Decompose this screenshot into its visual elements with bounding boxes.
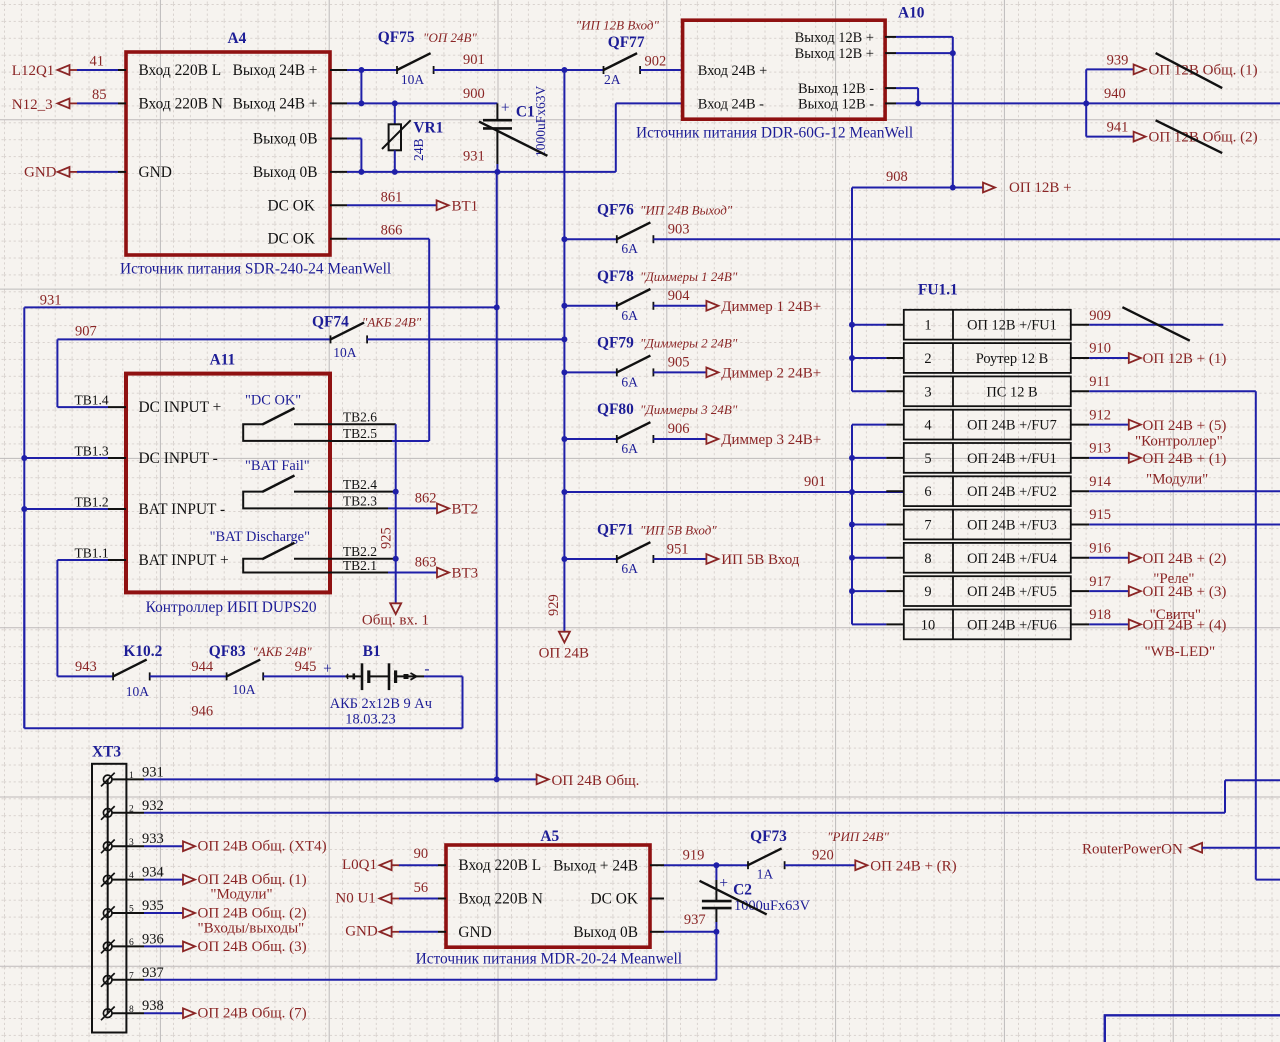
svg-text:6А: 6А [621,308,638,323]
contactor K10.2 [57,643,162,699]
svg-text:10А: 10А [333,345,357,360]
wire jumper out1-out2 [360,70,362,103]
svg-text:2: 2 [924,351,931,367]
A10 pin names [698,30,874,113]
wire 901 QF75 to QF77 [434,69,604,71]
svg-text:951: 951 [667,541,689,557]
wire FU row3 left [852,390,904,392]
FU1.1 row texts [921,318,1057,634]
node dot C1 bottom [494,169,500,175]
node arrow BT1 [437,199,479,215]
wire A5 0V out [650,931,716,933]
svg-text:901: 901 [804,474,826,490]
wire 951 [653,541,706,559]
svg-text:910: 910 [1089,341,1111,357]
node dot 901 [849,489,855,495]
wire 916 [1071,541,1129,558]
svg-text:1: 1 [924,318,931,334]
svg-text:"Диммеры 2 24В": "Диммеры 2 24В" [640,336,738,351]
svg-text:ОП 24В + (5): ОП 24В + (5) [1143,418,1227,434]
wire 901 long to FU bus [564,474,903,492]
svg-text:"АКБ 24В": "АКБ 24В" [252,644,312,659]
svg-text:Вход 24В +: Вход 24В + [698,63,767,79]
wire GND to A4 [77,171,118,173]
svg-text:ОП 24В + (2): ОП 24В + (2) [1143,551,1227,567]
svg-text:862: 862 [415,491,437,507]
wire 908 down to FU bus rows 1-3 [851,188,853,392]
XT3 pin numbers [129,771,134,1015]
svg-text:943: 943 [75,659,97,675]
svg-text:ОП 12В +/FU1: ОП 12В +/FU1 [967,318,1057,334]
node dot 901 bus left [561,489,567,495]
svg-text:+: + [501,100,510,117]
svg-text:904: 904 [668,288,691,304]
vertical common net to Общ. вх. 1 [395,424,397,603]
svg-text:ТВ1.1: ТВ1.1 [75,545,109,560]
wire 936 XT3 pin6 [112,945,183,947]
svg-text:L0Q1: L0Q1 [342,857,377,873]
node arrow ОП 12В Общ. (2) [1134,130,1258,146]
wire 919 A5 +24V out [650,848,748,866]
node dot QF80 bus [561,436,567,442]
svg-text:Выход 0В: Выход 0В [573,924,638,941]
node arrow ОП 24В + (5) [1129,418,1227,450]
svg-text:ПС 12 В: ПС 12 В [986,384,1037,400]
wire FU row9 left [852,590,904,592]
node arrow BT2 [437,502,478,518]
node dot 908 [950,185,956,191]
vertical left 931 to battery minus [23,307,25,728]
svg-text:"WB-LED": "WB-LED" [1145,644,1216,660]
node GND left [24,165,77,181]
node N12_3 [12,87,107,113]
svg-text:863: 863 [415,555,437,571]
wire 909 [1071,308,1224,325]
node dot [849,322,855,328]
svg-text:BT2: BT2 [452,502,479,518]
wire 941 branch [1086,120,1133,137]
svg-text:Вход 220В N: Вход 220В N [458,891,542,908]
varistor VR1 [382,103,443,171]
svg-text:"Контроллер": "Контроллер" [1135,434,1223,450]
svg-text:L12Q1: L12Q1 [12,63,55,79]
wire 931 A4 0V row4 to A10 [330,103,683,171]
svg-text:Выход 12В -: Выход 12В - [798,96,874,112]
svg-text:ОП 24В +/FU1: ОП 24В +/FU1 [967,451,1057,467]
svg-text:85: 85 [92,87,107,103]
svg-text:VR1: VR1 [413,120,443,137]
svg-text:"Модули": "Модули" [210,886,272,902]
wire A5 DC OK stub [650,898,664,900]
svg-text:"BAT Discharge": "BAT Discharge" [210,529,310,545]
svg-text:ОП 24В +/FU3: ОП 24В +/FU3 [967,518,1057,534]
svg-text:905: 905 [668,355,690,371]
node dot TB2.4 [393,489,399,495]
node arrow ОП 24В + (R) [855,859,956,875]
svg-text:10А: 10А [232,682,256,697]
node arrow ОП 24В Общ. [537,773,640,789]
svg-text:929: 929 [546,594,562,616]
wire 932 XT3 pin2 to right edge [112,780,1280,813]
svg-text:10А: 10А [401,72,425,87]
svg-text:-: - [424,661,429,678]
svg-text:916: 916 [1089,541,1111,557]
breaker QF83 [209,643,312,697]
svg-text:"Диммеры 1 24В": "Диммеры 1 24В" [640,269,738,284]
node dot C2 bottom [713,929,719,935]
svg-text:"DC OK": "DC OK" [245,393,301,409]
node RouterPowerON [1082,842,1280,858]
svg-text:900: 900 [463,86,485,102]
svg-text:908: 908 [886,169,908,185]
wire A10 12V- pins to 940 [885,88,918,103]
wire 939 branch [1086,53,1133,137]
wire FU row4 left [852,424,904,426]
XT3 net numbers [142,764,165,1014]
svg-text:QF74: QF74 [312,313,349,330]
breaker QF79 [564,335,737,390]
svg-text:DC INPUT -: DC INPUT - [139,450,218,467]
svg-text:GND: GND [139,164,172,181]
node arrow ОП 24В + (2) [1129,551,1227,587]
wire 933 XT3 pin3 [112,845,183,847]
svg-text:ОП 24В +/FU2: ОП 24В +/FU2 [967,484,1057,500]
svg-text:906: 906 [668,421,690,437]
svg-text:QF71: QF71 [597,521,634,538]
terminal block XT3 [92,744,126,1033]
XT3 pin 8 terminal [101,1007,115,1021]
node arrow ОП 24В + (4) [1129,618,1227,661]
XT3 pin 6 terminal [101,940,115,954]
wire TB1.3 to 931 [24,457,126,459]
wire 940 to right edge [896,86,1280,103]
wire 913 [1071,441,1129,458]
wire FU row5 left [852,457,904,459]
svg-text:АКБ 2х12В 9 Ач: АКБ 2х12В 9 Ач [330,696,432,712]
svg-text:944: 944 [191,659,214,675]
svg-text:ОП 24В Общ. (7): ОП 24В Общ. (7) [198,1006,307,1022]
node dot 931 jumper [358,169,364,175]
svg-text:A4: A4 [228,30,247,47]
svg-text:QF73: QF73 [750,828,787,845]
wire 911 to right edge [1071,374,1280,880]
svg-text:Диммер 3 24В+: Диммер 3 24В+ [721,432,821,448]
svg-text:ТВ2.3: ТВ2.3 [343,494,377,509]
node arrow ОП 24В Общ. (1) [183,872,307,902]
svg-text:"BAT Fail": "BAT Fail" [245,458,310,474]
svg-text:ТВ2.4: ТВ2.4 [343,477,377,492]
wire 862 TB2.3 to BT2 [330,491,437,509]
svg-text:Выход 12В -: Выход 12В - [798,81,874,97]
A5 pin names [458,857,638,941]
svg-text:"АКБ 24В": "АКБ 24В" [362,314,422,329]
svg-text:BAT INPUT -: BAT INPUT - [139,501,226,518]
UPS controller A11 box [126,352,330,593]
svg-text:937: 937 [142,965,164,981]
svg-text:Источник питания SDR-240-24 Me: Источник питания SDR-240-24 MeanWell [120,261,391,278]
svg-text:ОП 24В: ОП 24В [539,646,589,662]
wire FU row8 left [852,557,904,559]
svg-text:Вход 220В L: Вход 220В L [139,62,222,79]
wire 934 XT3 pin4 [112,879,183,881]
svg-text:6А: 6А [621,441,638,456]
wire 85 to A4 [77,102,118,104]
wire 903 to right edge [653,222,1280,240]
svg-text:933: 933 [142,831,164,847]
svg-text:"Модули": "Модули" [1146,472,1208,488]
wire 90 to A5 [399,864,446,866]
svg-text:ТВ2.5: ТВ2.5 [343,426,377,441]
wire QF74 out to bus [367,338,564,340]
svg-text:901: 901 [463,52,485,68]
svg-text:ТВ2.6: ТВ2.6 [343,409,377,424]
wire 908 [852,169,983,188]
svg-text:911: 911 [1089,374,1110,390]
svg-text:931: 931 [142,764,164,780]
svg-text:Выход 24В +: Выход 24В + [233,95,318,112]
A11 right pin labels [343,409,377,572]
node dot [358,100,364,106]
svg-text:"Входы/выходы": "Входы/выходы" [198,920,305,936]
wire A4 0V row3 jumper [330,139,361,172]
wire 902 QF77 to A10 [640,69,683,71]
svg-text:7: 7 [924,518,931,534]
XT3 pin 7 terminal [101,973,115,987]
vertical FU bus rows 4-10 [851,425,853,625]
node arrow ОП 12В Общ. (1) [1134,63,1258,79]
breaker QF80 [564,401,737,456]
node arrow ОП 24В Общ. (3) [183,939,307,955]
node arrow ОП 12В + (1) [1129,351,1227,367]
wire A10 12V+ pins to 908 [885,37,953,188]
svg-text:ОП 24В Общ. (ХТ4): ОП 24В Общ. (ХТ4) [198,839,327,855]
svg-text:24В: 24В [411,138,426,161]
XT3 pin 2 terminal [101,806,115,820]
svg-text:941: 941 [1107,120,1129,136]
node dot QF79 bus [561,369,567,375]
svg-text:QF77: QF77 [608,34,645,51]
node dot TB1.2 [21,506,27,512]
svg-text:5: 5 [924,451,931,467]
svg-text:C2: C2 [733,882,752,899]
svg-text:"РИП 24В": "РИП 24В" [827,829,889,844]
node dot [358,67,364,73]
node arrow ОП 24В Общ. (ХТ4) [183,839,327,855]
node dot [849,555,855,561]
svg-text:907: 907 [75,324,97,340]
svg-text:ОП 12В +: ОП 12В + [1009,180,1072,196]
svg-text:90: 90 [414,846,429,862]
svg-text:XT3: XT3 [92,744,121,761]
svg-text:10: 10 [921,617,935,633]
svg-text:Вход 220В N: Вход 220В N [139,95,223,112]
svg-text:Выход 0В: Выход 0В [253,164,318,181]
svg-text:DC INPUT +: DC INPUT + [139,399,222,416]
svg-text:913: 913 [1089,441,1111,457]
wire 937 XT3 pin7 to C2 bottom [112,912,716,980]
svg-text:18.03.23: 18.03.23 [345,712,395,728]
svg-text:6А: 6А [621,374,638,389]
svg-text:6: 6 [924,484,931,500]
svg-text:925: 925 [379,527,395,549]
strike-out mark over 939 [1156,53,1223,88]
strike-out mark over 941 [1156,120,1223,153]
svg-text:B1: B1 [363,643,381,660]
wire 863 TB2.1 to BT3 [330,555,437,573]
breaker QF76 [564,202,732,257]
node arrow ОП 24В + (1) [1129,451,1227,487]
svg-text:ОП 24В + (4): ОП 24В + (4) [1143,618,1227,634]
svg-text:BAT INPUT +: BAT INPUT + [139,552,229,569]
node arrow ИП 5В Вход [706,552,799,568]
svg-text:Выход 0В: Выход 0В [253,131,318,148]
svg-text:1000uFx63V: 1000uFx63V [533,85,548,157]
node dot [849,522,855,528]
node arrow ОП 24В + (3) [1129,584,1227,623]
svg-text:ОП 24В + (R): ОП 24В + (R) [870,859,956,875]
svg-text:Выход 12В +: Выход 12В + [795,46,874,62]
node arrow Диммер 2 [706,365,821,381]
svg-text:DC OK: DC OK [591,890,638,907]
svg-text:ОП 24В Общ. (2): ОП 24В Общ. (2) [198,906,307,922]
node GND A5 [345,924,399,940]
svg-text:940: 940 [1104,86,1126,102]
wire 910 [1071,341,1129,358]
svg-text:QF76: QF76 [597,202,634,219]
node dot QF71 bus [561,556,567,562]
svg-text:8: 8 [924,551,931,567]
wire FU row6 left (901) [886,490,904,492]
wire FU row2 left [852,357,904,359]
svg-text:2А: 2А [604,72,621,87]
svg-text:Выход + 24В: Выход + 24В [553,857,638,874]
wire 935 XT3 pin5 [112,912,183,914]
svg-text:909: 909 [1089,308,1111,324]
svg-text:10А: 10А [126,684,150,699]
svg-text:917: 917 [1089,574,1111,590]
svg-text:ОП 12В + (1): ОП 12В + (1) [1143,351,1227,367]
wire TB2.2 stub [330,558,396,560]
svg-text:ОП 24В Общ. (3): ОП 24В Общ. (3) [198,939,307,955]
power supply A4 box [126,30,330,255]
power supply A5 box [446,828,650,947]
breaker QF75 [378,29,478,87]
node arrow Общ. вх. 1 [362,603,429,628]
svg-text:Источник питания DDR-60G-12 Me: Источник питания DDR-60G-12 MeanWell [636,125,913,142]
node L12Q1 [12,54,104,80]
svg-text:GND: GND [458,924,491,941]
node arrow ОП 24В down [539,632,589,662]
wire 917 [1071,574,1129,591]
node dot TB1.3 [21,455,27,461]
XT3 pin 3 terminal [101,840,115,854]
capacitor C2 [702,865,811,932]
wire 914 to right edge [1071,474,1280,491]
svg-text:GND: GND [345,924,378,940]
breaker QF78 [564,268,737,323]
breaker QF71 [564,521,717,576]
svg-text:939: 939 [1107,53,1129,69]
wire FU row1 left [852,324,904,326]
strike-out mark over C2 [700,881,767,915]
wire TB1.1 to battery K10.2 [57,560,126,676]
svg-text:932: 932 [142,798,164,814]
breaker QF73 [748,828,889,882]
wire TB1.4 to QF74 [57,339,126,407]
svg-text:6А: 6А [621,241,638,256]
node arrow ОП 12В + [983,180,1072,196]
svg-text:QF80: QF80 [597,401,634,418]
svg-text:931: 931 [40,293,62,309]
node arrow Диммер 1 [706,299,821,315]
svg-text:+: + [719,875,728,892]
node arrow BT3 [437,566,478,582]
svg-text:ИП 5В Вход: ИП 5В Вход [721,552,799,568]
node L0Q1 [342,846,428,873]
battery B1 [330,643,432,728]
svg-text:ОП 24В +/FU4: ОП 24В +/FU4 [967,551,1057,567]
XT3 pin 4 terminal [101,873,115,887]
svg-text:N0 U1: N0 U1 [335,891,375,907]
svg-text:918: 918 [1089,607,1111,623]
vertical 931 net [496,172,498,780]
svg-text:903: 903 [668,222,690,238]
node dot A10 12V+ [950,50,956,56]
svg-text:A5: A5 [540,828,559,845]
svg-text:920: 920 [812,848,834,864]
wire FU row7 left [852,524,904,526]
svg-text:ТВ1.3: ТВ1.3 [75,444,109,459]
wire TB2.4 stub [330,491,396,493]
node dot 901/bus [561,67,567,73]
wire 41 to A4 [77,69,118,71]
svg-text:+: + [323,661,332,678]
vertical QF bus 24V [563,70,565,632]
wire FU row10 left [852,623,904,625]
wire 920 [785,848,856,866]
svg-text:Вход 24В -: Вход 24В - [698,97,764,113]
svg-text:Источник питания MDR-20-24 Mea: Источник питания MDR-20-24 Meanwell [416,951,682,968]
svg-text:GND: GND [24,165,57,181]
svg-text:915: 915 [1089,507,1111,523]
node dot TB2.2 [393,556,399,562]
svg-text:861: 861 [381,190,403,206]
wire 905 [653,355,706,373]
svg-text:ОП 24В +/FU7: ОП 24В +/FU7 [967,418,1057,434]
wire TB2.5 stub to 866 [330,239,429,441]
node arrow ОП 24В Общ. (2) [183,906,307,937]
svg-text:Контроллер ИБП DUPS20: Контроллер ИБП DUPS20 [146,599,317,616]
svg-text:902: 902 [645,54,667,70]
wire 945 to battery [263,659,345,678]
svg-text:N12_3: N12_3 [12,97,53,113]
strike-out mark over C1 [479,122,547,156]
XT3 pin 1 terminal [101,773,115,787]
svg-text:6А: 6А [621,561,638,576]
svg-text:BT1: BT1 [452,199,479,215]
wire GND to A5 [399,931,446,933]
svg-text:4: 4 [924,418,931,434]
node dot VR1 bottom [392,169,398,175]
svg-text:"Диммеры 3 24В": "Диммеры 3 24В" [640,402,738,417]
svg-text:K10.2: K10.2 [123,643,162,660]
svg-text:ОП 24В + (3): ОП 24В + (3) [1143,584,1227,600]
node dot QF76 bus [561,236,567,242]
wire 931 left branch [24,293,496,309]
svg-text:919: 919 [683,848,705,864]
wire 944 [150,659,227,676]
svg-text:946: 946 [191,704,213,720]
